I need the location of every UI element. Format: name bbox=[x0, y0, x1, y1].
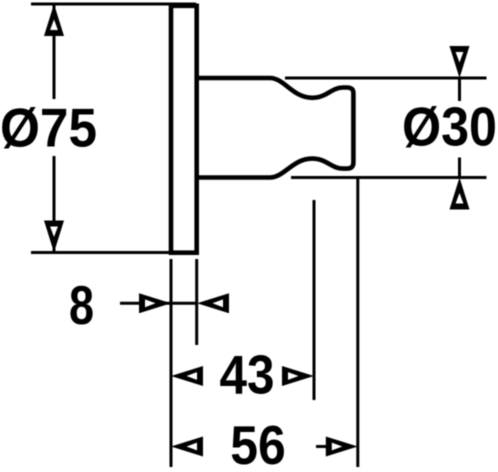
svg-text:Ø30: Ø30 bbox=[402, 96, 497, 158]
dimension Ø75: top arrowhead bbox=[44, 4, 64, 36]
dimension 8: dimension line with left leader bbox=[120, 302, 197, 305]
dimension 8: left arrowhead (outside, pointing right) bbox=[139, 293, 171, 313]
dimension 8: right arrowhead (outside, pointing left) bbox=[197, 293, 229, 313]
dimension Ø75: dimension line lower segment bbox=[53, 156, 56, 253]
dimension Ø30: dimension line upper segment bbox=[458, 78, 461, 101]
svg-text:43: 43 bbox=[220, 344, 275, 406]
holder body outline bbox=[197, 78, 354, 178]
svg-text:8: 8 bbox=[69, 274, 94, 336]
dimension Ø30: top extension line bbox=[285, 77, 487, 80]
dimension Ø75: bottom arrowhead bbox=[44, 221, 64, 253]
svg-text:56: 56 bbox=[230, 414, 286, 472]
dimension 43: right extension line bbox=[313, 200, 316, 400]
dimension Ø30: dimension line lower segment bbox=[458, 158, 461, 178]
svg-text:Ø75: Ø75 bbox=[0, 97, 97, 159]
dimension Ø30: bottom arrowhead (outside, pointing up) bbox=[450, 178, 470, 210]
dimension Ø75: dimension line upper segment bbox=[53, 4, 56, 99]
dimension 56: right extension line bbox=[356, 178, 359, 468]
dimension Ø30: bottom extension line bbox=[291, 176, 487, 179]
dimension 8: right extension line bbox=[195, 259, 198, 345]
dimension Ø75: top extension line bbox=[31, 3, 196, 6]
dimension 56: left arrowhead bbox=[171, 437, 203, 457]
dimension 43: right arrowhead bbox=[282, 366, 314, 386]
dimension 43: left arrowhead bbox=[171, 366, 203, 386]
shared left extension line (8/43/56) bbox=[170, 259, 173, 467]
wall plate (side view) bbox=[171, 6, 197, 253]
dimension Ø30: top arrowhead (outside, pointing down) bbox=[450, 46, 470, 78]
dimension Ø75: bottom extension line bbox=[31, 251, 196, 254]
dimension 56: right arrowhead bbox=[326, 437, 358, 457]
dimension 56: right stub line bbox=[316, 445, 326, 448]
